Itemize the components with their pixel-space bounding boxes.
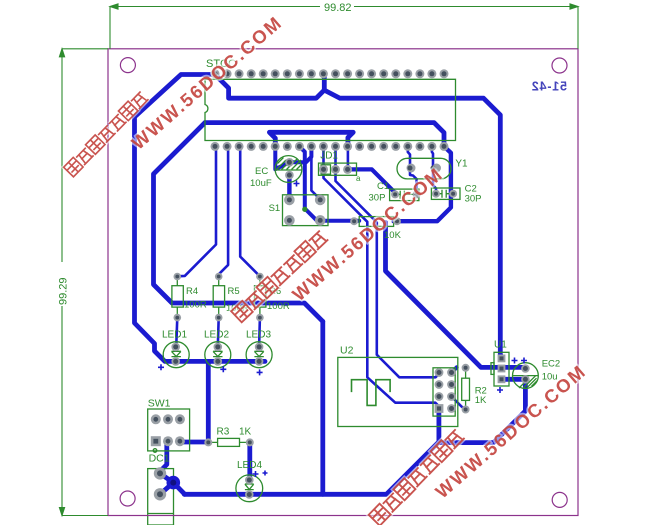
svg-text:LED3: LED3: [246, 330, 271, 341]
svg-text:EC: EC: [255, 166, 268, 177]
svg-text:LED1: LED1: [162, 330, 187, 341]
svg-text:WWW.56DOC.COM: WWW.56DOC.COM: [127, 11, 286, 153]
svg-text:10K: 10K: [384, 230, 402, 241]
svg-text:R5: R5: [228, 286, 240, 297]
svg-text:U1: U1: [494, 340, 507, 351]
svg-text:LED4: LED4: [237, 460, 262, 471]
svg-text:30P: 30P: [465, 194, 482, 205]
svg-text:R3: R3: [217, 427, 230, 438]
svg-text:EC2: EC2: [542, 359, 560, 370]
svg-text:SW1: SW1: [148, 398, 171, 410]
svg-text:10uF: 10uF: [250, 178, 272, 189]
svg-text:R4: R4: [186, 286, 198, 297]
svg-text:Y1: Y1: [455, 159, 468, 170]
svg-text:99.82: 99.82: [324, 2, 352, 14]
svg-text:U2: U2: [340, 345, 354, 357]
svg-text:S1: S1: [269, 203, 281, 214]
svg-text:100R: 100R: [267, 301, 290, 312]
svg-text:1K: 1K: [475, 395, 487, 406]
svg-text:99.29: 99.29: [58, 277, 70, 305]
svg-text:100R: 100R: [184, 300, 207, 311]
svg-text:DC1: DC1: [149, 453, 170, 465]
svg-text:51-42: 51-42: [531, 80, 567, 94]
svg-text:30P: 30P: [369, 193, 386, 204]
svg-text:a: a: [356, 174, 361, 183]
svg-text:C1: C1: [377, 181, 389, 192]
svg-text:JD1: JD1: [320, 151, 338, 162]
svg-text:LED2: LED2: [204, 330, 229, 341]
svg-text:1K: 1K: [239, 427, 252, 438]
